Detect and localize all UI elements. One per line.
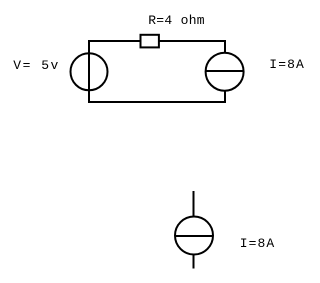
voltage source V1 (left circle, wire passes through) <box>71 53 108 90</box>
wire: bottom source vertical leads <box>193 191 195 269</box>
svg-text:R=4 ohm: R=4 ohm <box>148 13 205 28</box>
current source I2 bar <box>175 235 213 237</box>
current source I2 (bottom circle with horizontal bar) <box>175 217 213 255</box>
svg-text:V= 5v: V= 5v <box>13 58 60 73</box>
svg-text:I=8A: I=8A <box>240 236 276 251</box>
current source I1 (right circle with horizontal bar) <box>206 53 244 91</box>
current source I1 bar <box>206 70 244 72</box>
wire: top loop rectangle <box>89 41 225 102</box>
resistor R (box on top wire) <box>141 35 159 48</box>
svg-text:I=8A: I=8A <box>269 57 305 72</box>
